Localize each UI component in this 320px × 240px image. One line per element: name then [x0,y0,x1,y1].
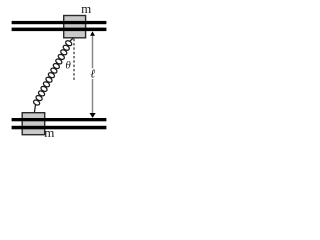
bottom rail lower line [12,126,107,130]
top rail upper line [12,21,107,24]
svg-text:ℓ: ℓ [90,66,95,80]
bottom rail upper line [12,118,107,121]
dashed vertical reference line from top block [73,39,75,81]
svg-text:m: m [81,1,91,16]
spring coil between the two blocks [34,38,73,112]
length arrow shaft lower segment [92,79,94,114]
svg-text:m: m [44,125,54,140]
length arrow shaft upper segment [92,36,94,69]
top rail lower line [12,28,107,32]
mass block m (top) [64,16,86,38]
length arrow top arrowhead [90,31,95,36]
length arrow bottom arrowhead [90,113,96,118]
mass block m (bottom) [22,113,45,135]
svg-text:θ: θ [65,60,71,72]
